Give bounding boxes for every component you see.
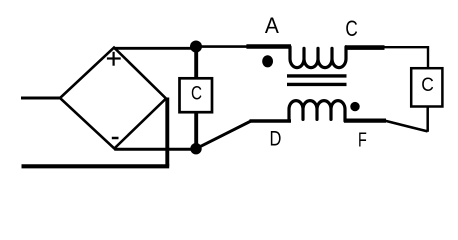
svg-text:C: C [191,83,202,105]
wire: secondary D lead [250,119,292,123]
wire: bottom node to secondary D lead (diagonal) [196,121,251,149]
polarity dot node F [350,102,359,111]
wire: top right thin to corner [383,47,428,68]
wire: left AC input stub [21,97,61,100]
wire: primary A lead (thick) [246,44,291,49]
wire: capacitor C2 bottom stub [426,106,429,132]
transformer core [287,76,347,85]
wire: bridge + output to top node [114,47,196,50]
svg-text:F: F [358,130,367,152]
wire: capacitor C1 to bottom node [194,112,198,149]
minus label on bridge [112,137,119,140]
wire: secondary F lead (thick) [344,118,386,122]
svg-text:A: A [265,13,279,38]
wire: F lead to capacitor C2 (diagonal) [385,121,427,132]
polarity dot node A [262,55,273,67]
wire: top node to primary lead (thin) [196,45,248,48]
svg-text:C: C [421,74,434,96]
capacitor C1 box [180,78,213,112]
plus label on bridge [107,52,121,66]
wire: primary C lead (thick) [345,45,385,50]
node: bottom junction [190,143,201,154]
transformer T1 secondary winding [289,101,345,121]
transformer T1 primary winding [290,47,346,68]
wire: bridge right vertex down to rail [165,98,169,167]
wire: top node down to capacitor C1 [194,47,198,80]
svg-text:C: C [345,16,357,41]
wire: bridge - output to bottom node [114,148,196,151]
svg-text:D: D [269,125,281,150]
wire: bottom rail [22,164,170,168]
bridge rectifier BR1 (diamond) [60,48,166,149]
node: top junction [190,41,202,53]
capacitor C2 box [411,68,442,106]
